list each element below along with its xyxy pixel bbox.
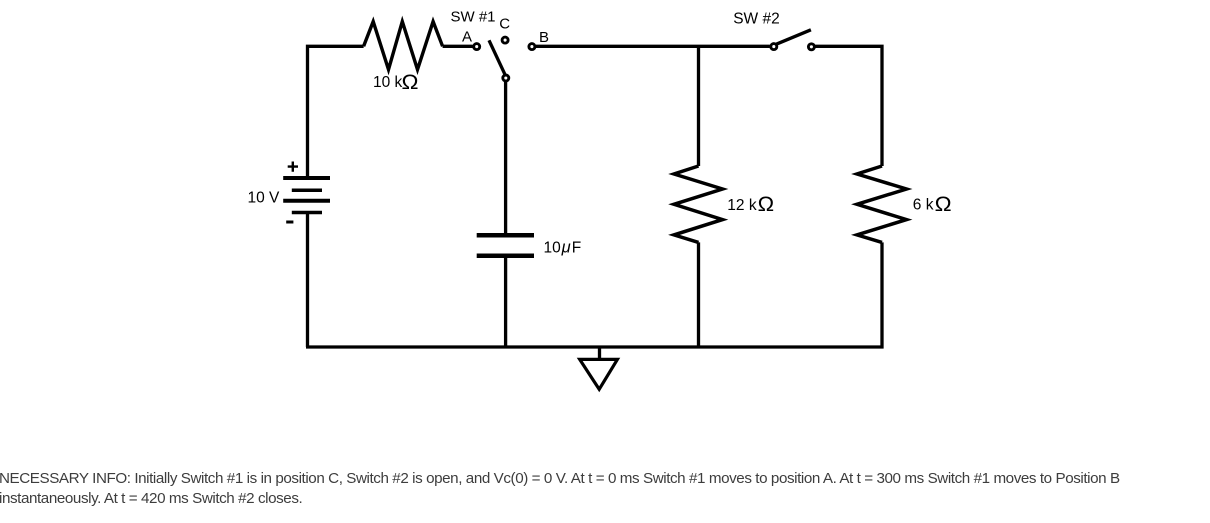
svg-text:10 k: 10 k [373, 74, 403, 91]
svg-text:F: F [572, 240, 581, 257]
svg-text:10: 10 [544, 240, 562, 257]
svg-text:12 k: 12 k [727, 197, 757, 214]
svg-text:Ω: Ω [402, 71, 419, 94]
svg-text:SW #1: SW #1 [451, 8, 496, 25]
svg-text:Ω: Ω [935, 193, 952, 216]
svg-text:B: B [539, 29, 549, 46]
svg-text:SW #2: SW #2 [733, 11, 780, 28]
svg-text:A: A [462, 28, 472, 45]
svg-text:C: C [499, 15, 510, 32]
svg-text:10 V: 10 V [248, 189, 281, 206]
svg-text:Ω: Ω [758, 193, 775, 216]
svg-text:μ: μ [561, 239, 571, 257]
svg-text:6 k: 6 k [913, 197, 934, 214]
